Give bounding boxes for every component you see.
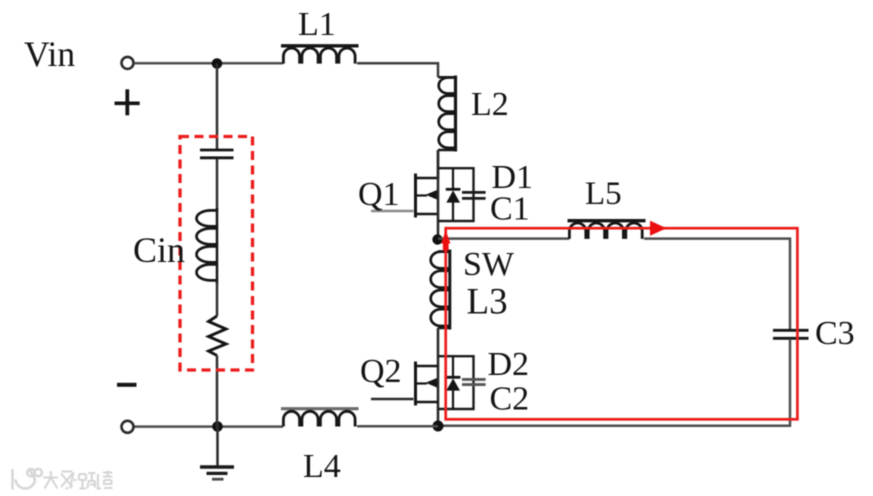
wire bottom from terminal to L4 <box>134 425 283 428</box>
wire ground stem <box>216 426 219 467</box>
wire red hot-loop rectangle <box>446 228 798 419</box>
svg-text:SW: SW <box>463 246 515 283</box>
wire red arrow up at SW <box>441 231 451 251</box>
node label plus <box>115 89 140 115</box>
watermark text blocks <box>44 471 113 490</box>
capacitor C1 <box>462 192 486 198</box>
svg-text:Q1: Q1 <box>358 176 400 213</box>
node SW junction dot <box>432 234 442 244</box>
wire top from terminal to L1 <box>134 62 283 65</box>
capacitor C3 <box>773 330 809 338</box>
wire L2 to Q1 drain <box>437 150 440 178</box>
svg-text:C1: C1 <box>490 191 530 228</box>
wire red arrow right after L5 <box>650 221 667 236</box>
wire inductor to resistor <box>216 282 219 316</box>
capacitor Cin-C plates <box>200 150 234 158</box>
node Vin- terminal <box>122 421 134 433</box>
node junction bottom at Cin/ground <box>212 421 223 432</box>
svg-text:C3: C3 <box>815 315 855 352</box>
resistor Cin-R (ESR) <box>209 316 227 356</box>
svg-text:Cin: Cin <box>133 230 185 270</box>
svg-text:L3: L3 <box>467 282 508 323</box>
wire C3 down to bottom and back to Q2 source <box>438 339 790 426</box>
capacitor Cin dashed red boundary box <box>180 137 253 371</box>
svg-text:C2: C2 <box>490 381 530 418</box>
wire from L1 to top-right corner <box>357 63 438 77</box>
inductor Cin-L (ESL) <box>197 210 218 280</box>
wire resistor to bottom <box>216 356 219 427</box>
wire Cin branch top <box>216 64 219 150</box>
svg-text:L4: L4 <box>303 448 341 485</box>
watermark logo <box>13 469 42 490</box>
inductor L1 <box>281 46 359 64</box>
svg-text:Q2: Q2 <box>360 353 402 390</box>
inductor L3 <box>431 250 450 330</box>
transistor Q1 <box>371 174 438 218</box>
node bottom junction at Q2 <box>433 421 444 432</box>
wire Q1 channel vertical <box>437 150 440 240</box>
svg-text:L2: L2 <box>471 86 509 123</box>
wire L3 to Q2 <box>437 328 440 426</box>
wire cap to inductor <box>216 159 219 211</box>
svg-text:L5: L5 <box>585 176 622 212</box>
diode D2 <box>446 356 461 409</box>
wire box D1/C1 outline <box>438 168 474 221</box>
wire box D2/C2 outline <box>438 356 474 409</box>
capacitor C2 <box>462 379 486 384</box>
wire L5 to right corner and down <box>644 239 790 330</box>
wire L4 to Q2 junction <box>357 425 438 428</box>
inductor L4 <box>281 409 359 427</box>
wire SW to L5 <box>438 237 569 240</box>
inductor L2 <box>438 76 456 152</box>
diode D1 <box>446 168 461 221</box>
transistor Q2 <box>371 362 438 406</box>
node label minus <box>117 383 137 387</box>
node Vin+ terminal <box>122 57 134 69</box>
inductor L5 <box>568 221 646 239</box>
node junction top at Cin <box>212 58 223 69</box>
svg-text:Vin: Vin <box>24 34 75 74</box>
svg-text:L1: L1 <box>298 6 336 43</box>
ground <box>200 467 234 479</box>
svg-text:D2: D2 <box>488 346 530 383</box>
